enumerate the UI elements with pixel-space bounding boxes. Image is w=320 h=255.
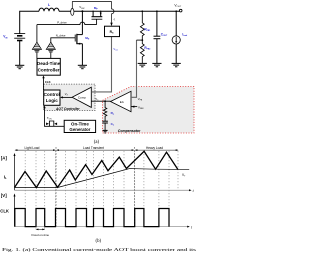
- Compensator dashed red box: [103, 87, 194, 134]
- header arrow light load: [15, 149, 56, 151]
- capacitor Cc: [102, 121, 108, 130]
- node VOUT terminal: [179, 9, 182, 12]
- wire VC comparator input from EA: [91, 100, 110, 102]
- header arrow load transient: [56, 149, 134, 151]
- IL time axis gray: [15, 189, 192, 191]
- gate driver N: [46, 42, 55, 58]
- svg-text:Comp: Comp: [78, 96, 86, 100]
- fixed on-time arrow: [36, 229, 45, 231]
- current source ILOAD: [172, 10, 180, 63]
- ticks fixed on-time: [36, 227, 45, 230]
- wire inductor to VSW: [59, 10, 82, 12]
- battery VIN: [14, 34, 25, 66]
- svg-text:Load Transient: Load Transient: [83, 146, 104, 150]
- op-amp EA: [111, 91, 132, 111]
- svg-text:Generator: Generator: [69, 127, 90, 132]
- VT threshold line: [15, 169, 190, 188]
- svg-text:CLK: CLK: [0, 209, 9, 214]
- svg-text:[A]: [A]: [1, 155, 8, 160]
- Dead-Time Controller box: [37, 58, 61, 75]
- CLK axis vertical: [14, 193, 16, 226]
- svg-text:Dead-Time: Dead-Time: [37, 61, 61, 66]
- svg-text:Control: Control: [44, 92, 60, 97]
- wire VREF input: [131, 106, 137, 108]
- ground Cc: [103, 130, 108, 133]
- header arrow heavy load: [135, 149, 179, 151]
- ground battery: [15, 65, 24, 68]
- ground COUT: [152, 63, 161, 66]
- ground RFB2: [138, 63, 147, 66]
- wire P_drive with hop: [37, 22, 97, 25]
- svg-text:IL: IL: [4, 174, 7, 180]
- svg-text:(a): (a): [94, 140, 100, 145]
- Control Logic box: [44, 90, 60, 105]
- resistor RFB1: [140, 10, 144, 40]
- ground ILOAD: [172, 63, 181, 66]
- svg-text:Light Load: Light Load: [25, 146, 40, 150]
- On-Time Generator box: [64, 120, 95, 132]
- gate driver P: [32, 25, 41, 59]
- AOT Controller dashed box: [44, 84, 95, 111]
- wire CLK control logic to dead-time: [43, 78, 45, 90]
- node VC: [104, 100, 106, 102]
- svg-text:N_drive: N_drive: [56, 34, 66, 38]
- wire N_drive: [51, 38, 75, 43]
- resistor Rc: [103, 101, 106, 121]
- transistor MP: [92, 11, 103, 25]
- svg-text:Fig. 1. (a) Conventional cu: Fig. 1. (a) Conventional current-mode AO…: [2, 247, 197, 252]
- wire top rail left: [20, 11, 39, 33]
- ground MN: [78, 65, 87, 68]
- CLK waveform: [15, 209, 169, 227]
- svg-text:Compensator: Compensator: [118, 129, 141, 133]
- svg-text:[V]: [V]: [1, 193, 7, 198]
- resistor Rs box: [105, 26, 120, 36]
- svg-text:Fixed on-time: Fixed on-time: [32, 233, 50, 237]
- transistor MN: [75, 11, 82, 65]
- svg-text:Logic: Logic: [46, 98, 58, 103]
- waveform gridlines: [25, 151, 178, 227]
- svg-text:EA: EA: [120, 100, 124, 104]
- resistor RFB2: [140, 40, 144, 63]
- current sense loop wire to Rs with hop over rail: [72, 2, 114, 23]
- svg-text:(b): (b): [96, 239, 102, 244]
- wire on-time generator to control logic: [45, 108, 65, 126]
- load region divider transient/heavy: [134, 147, 136, 227]
- TON pulse symbol: [46, 121, 57, 126]
- svg-text:Heavy Load: Heavy Load: [146, 146, 163, 150]
- wire rail VSW to VOUT: [82, 10, 179, 12]
- svg-text:CLK: CLK: [45, 80, 51, 84]
- svg-text:Controller: Controller: [38, 67, 60, 72]
- svg-text:AOT Controller: AOT Controller: [55, 107, 80, 111]
- wire comparator output to control logic: [62, 96, 72, 98]
- node VSW: [81, 10, 83, 12]
- capacitor COUT: [154, 10, 161, 63]
- node feedback tap: [137, 39, 144, 41]
- inductor L: [39, 8, 59, 11]
- current sense oval: [71, 8, 74, 15]
- IL sawtooth waveform: [15, 151, 179, 187]
- arrow into Rs: [110, 23, 112, 27]
- CLK axis horizontal gray: [15, 226, 190, 228]
- wire Vsen from Rs to comparator: [91, 37, 111, 92]
- load region divider light/transient: [55, 147, 57, 227]
- svg-text:P_drive: P_drive: [57, 21, 67, 25]
- comparator Comp: [72, 87, 91, 107]
- wire VFB from divider to EA: [131, 40, 137, 97]
- IL axis vertical: [14, 153, 16, 190]
